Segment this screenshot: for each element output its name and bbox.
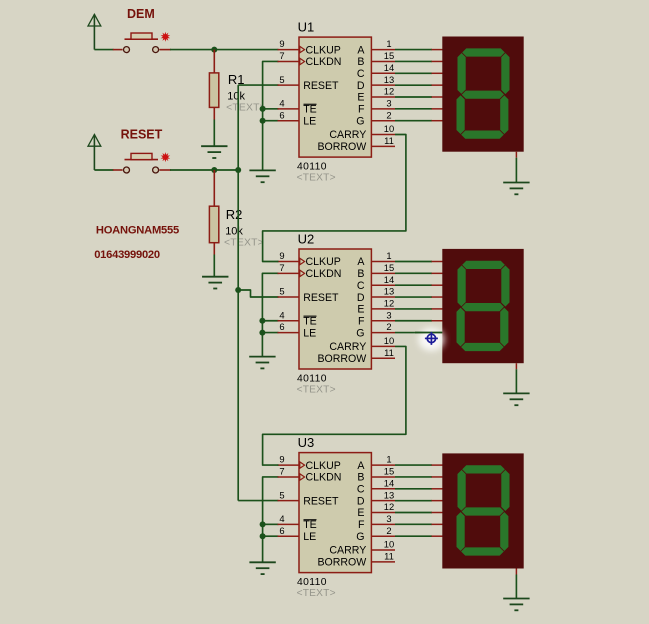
- wire U2 pin E to display: [395, 308, 432, 310]
- wire U3 LE to ground net: [263, 535, 279, 537]
- U2 pin 12 E stub: [371, 308, 395, 310]
- U2 pin 10 CARRY stub: [371, 345, 395, 347]
- svg-text:6: 6: [279, 109, 284, 120]
- U2 pin 2 G stub: [371, 332, 395, 334]
- U1 pin 13 D stub: [371, 84, 395, 86]
- display pin F stub (U3 stage): [432, 523, 444, 525]
- wire U3 pin A to display: [395, 464, 432, 466]
- wire RESET button to node R2: [170, 169, 239, 171]
- svg-text:TE: TE: [303, 315, 317, 327]
- wire reset net to U3 RESET: [238, 500, 278, 502]
- display pin A stub (U3 stage): [432, 464, 444, 466]
- U2 pin 3 F stub: [371, 320, 395, 322]
- svg-text:U3: U3: [298, 435, 315, 450]
- wire U1 LE to ground net: [263, 120, 279, 122]
- svg-text:D: D: [357, 495, 365, 507]
- U3 pin 1 A stub: [371, 464, 395, 466]
- svg-text:BORROW: BORROW: [317, 353, 366, 365]
- wire U3 pin D to display: [395, 500, 432, 502]
- wire U1 CARRY to U2 CLKUP: [263, 135, 406, 262]
- svg-text:A: A: [357, 460, 365, 472]
- U3 pin 10 CARRY stub: [371, 549, 395, 551]
- DISP3 segment f (top-left): [457, 469, 466, 511]
- svg-text:F: F: [358, 104, 365, 116]
- 7-segment display DISP3 body: [442, 453, 523, 568]
- U2 clock arrow CLKDN: [300, 270, 305, 277]
- svg-text:15: 15: [384, 262, 394, 273]
- wire U2 pin A to display: [395, 261, 432, 263]
- junction RESET net node: [235, 167, 241, 173]
- IC U3 40110 body: [299, 453, 371, 573]
- U1 pin 11 BORROW stub: [371, 145, 395, 147]
- svg-text:11: 11: [384, 551, 394, 562]
- svg-text:RESET: RESET: [303, 80, 339, 92]
- DISP2 segment g (middle): [461, 303, 505, 312]
- wire U3 pin E to display: [395, 512, 432, 514]
- wire DEM button to node R1: [170, 49, 215, 51]
- svg-text:2: 2: [386, 525, 391, 536]
- display pin D stub (U2 stage): [432, 296, 444, 298]
- wire U2 pin F to display: [395, 320, 432, 322]
- DISP1 segment b (top-right): [501, 53, 510, 95]
- push button RESET: [113, 152, 171, 173]
- DISP2 segment c (bottom-right): [500, 307, 509, 347]
- U3 pin 2 G stub: [371, 535, 395, 537]
- svg-text:13: 13: [384, 489, 394, 500]
- svg-text:CLKUP: CLKUP: [306, 44, 341, 56]
- ground R2: [202, 277, 228, 289]
- svg-text:5: 5: [279, 489, 284, 500]
- svg-text:C: C: [357, 68, 365, 80]
- DISP1 segment f (top-left): [457, 53, 466, 95]
- svg-text:1: 1: [386, 454, 391, 465]
- ground DISP3: [503, 599, 529, 611]
- display pin C stub (U2 stage): [432, 284, 444, 286]
- svg-text:15: 15: [384, 50, 394, 61]
- U2 pin 14 C stub: [371, 284, 395, 286]
- svg-text:RESET: RESET: [303, 292, 339, 304]
- U2 TE overline: [304, 315, 317, 317]
- wire reset net branch to U2 RESET (jog): [238, 290, 278, 297]
- U1 pin 14 C stub: [371, 72, 395, 74]
- svg-text:2: 2: [386, 109, 391, 120]
- svg-text:TE: TE: [303, 104, 317, 116]
- svg-text:CLKDN: CLKDN: [306, 472, 342, 484]
- svg-text:G: G: [356, 327, 364, 339]
- svg-text:4: 4: [279, 309, 284, 320]
- display pin E stub (U1 stage): [432, 96, 444, 98]
- wire DEM terminal to button: [94, 49, 113, 51]
- DISP2 segment e (bottom-left): [456, 307, 465, 347]
- svg-text:4: 4: [279, 97, 284, 108]
- svg-text:CARRY: CARRY: [329, 341, 366, 353]
- DISP3 segment c (bottom-right): [500, 512, 509, 552]
- svg-text:<TEXT>: <TEXT>: [224, 238, 264, 249]
- U2 pin 5 RESET stub: [278, 296, 300, 298]
- wire R2 to ground: [213, 255, 215, 277]
- U1 pin 4 TE stub: [278, 108, 300, 110]
- svg-text:7: 7: [279, 466, 284, 477]
- svg-text:14: 14: [384, 274, 394, 285]
- DISP3 segment d (bottom): [461, 547, 505, 556]
- U1 pin 9 CLKUP stub: [278, 49, 300, 51]
- wire U1 pin C to display: [395, 72, 432, 74]
- wire U2 pin B to display: [395, 272, 432, 274]
- wire U1 pin B to display: [395, 60, 432, 62]
- junction U1 LE node: [260, 118, 266, 124]
- svg-text:B: B: [357, 472, 364, 484]
- input terminal RESET: [88, 135, 101, 171]
- U2 pin 4 TE stub: [278, 320, 300, 322]
- ground U3 TE/LE: [249, 562, 275, 574]
- svg-text:CLKDN: CLKDN: [306, 56, 342, 68]
- svg-text:HOANGNAM555: HOANGNAM555: [96, 225, 179, 237]
- display pin B stub (U1 stage): [432, 60, 444, 62]
- svg-text:9: 9: [279, 250, 284, 261]
- U3 pin 3 F stub: [371, 523, 395, 525]
- display pin A stub (U1 stage): [432, 49, 444, 51]
- wire U2 LE to ground net: [262, 332, 278, 334]
- U3 pin 12 E stub: [371, 512, 395, 514]
- svg-text:01643999020: 01643999020: [94, 249, 160, 261]
- svg-text:1: 1: [386, 250, 391, 261]
- U3 pin 6 LE stub: [278, 535, 300, 537]
- junction R2 top node: [211, 167, 217, 173]
- svg-text:G: G: [356, 115, 364, 127]
- svg-text:3: 3: [386, 309, 391, 320]
- wire U2 pin G to display: [395, 332, 432, 334]
- svg-text:LE: LE: [303, 115, 316, 127]
- svg-text:E: E: [357, 304, 364, 316]
- svg-text:R2: R2: [226, 207, 243, 222]
- display pin A stub (U2 stage): [432, 261, 444, 263]
- U3 pin 4 TE stub: [278, 523, 300, 525]
- resistor R2 10k: [209, 206, 218, 243]
- wire U2 CARRY to U3 CLKUP: [263, 346, 406, 465]
- U3 pin 15 B stub: [371, 476, 395, 478]
- U2 pin 9 CLKUP stub: [278, 261, 300, 263]
- DISP2 segment d (bottom): [461, 343, 505, 352]
- svg-text:A: A: [357, 256, 365, 268]
- svg-text:E: E: [357, 507, 364, 519]
- svg-text:CARRY: CARRY: [329, 545, 366, 557]
- display pin C stub (U3 stage): [432, 488, 444, 490]
- DISP2 segment b (top-right): [501, 265, 510, 307]
- junction U3 TE node: [260, 521, 266, 527]
- wire U1 pin A to display: [395, 49, 432, 51]
- wire U3 CLKDN to ground net: [263, 477, 279, 562]
- svg-text:LE: LE: [303, 531, 316, 543]
- svg-text:CLKUP: CLKUP: [306, 460, 341, 472]
- U1 pin 3 F stub: [371, 108, 395, 110]
- U2 pin 11 BORROW stub: [371, 357, 395, 359]
- U3 pin 11 BORROW stub: [371, 561, 395, 563]
- wire DISP1 to ground: [515, 158, 517, 183]
- wire U2 TE to ground net: [262, 320, 278, 322]
- svg-text:F: F: [358, 519, 365, 531]
- U2 pin 6 LE stub: [278, 332, 300, 334]
- svg-text:U1: U1: [298, 20, 315, 35]
- display pin B stub (U2 stage): [432, 272, 444, 274]
- DISP1 segment d (bottom): [461, 130, 505, 139]
- svg-text:2: 2: [386, 321, 391, 332]
- svg-text:12: 12: [384, 298, 394, 309]
- svg-text:10: 10: [384, 335, 394, 346]
- svg-text:40110: 40110: [297, 577, 327, 588]
- wire U2 pin C to display: [395, 284, 432, 286]
- wire U1 pin E to display: [395, 96, 432, 98]
- svg-text:1: 1: [386, 38, 391, 49]
- display pin F stub (U2 stage): [432, 320, 444, 322]
- U1 clock arrow CLKDN: [300, 58, 305, 64]
- svg-text:40110: 40110: [297, 373, 327, 384]
- U1 pin 2 G stub: [371, 120, 395, 122]
- svg-text:6: 6: [279, 321, 284, 332]
- svg-text:11: 11: [384, 135, 394, 146]
- svg-text:C: C: [357, 484, 365, 496]
- wire U3 TE to ground net: [263, 523, 279, 525]
- display pin E stub (U2 stage): [432, 308, 444, 310]
- wire U1 CLKDN to ground net: [263, 61, 279, 170]
- DISP2 segment a (top): [462, 260, 506, 269]
- svg-text:G: G: [356, 531, 364, 543]
- svg-text:CLKDN: CLKDN: [306, 268, 342, 280]
- svg-text:15: 15: [384, 466, 394, 477]
- svg-text:10k: 10k: [227, 91, 245, 103]
- resistor R1 10k: [209, 73, 218, 108]
- display pin G stub (U1 stage): [432, 120, 444, 122]
- svg-text:40110: 40110: [297, 161, 327, 172]
- wire U3 pin G to display: [395, 535, 432, 537]
- display pin C stub (U1 stage): [432, 72, 444, 74]
- svg-text:BORROW: BORROW: [317, 141, 366, 153]
- svg-text:12: 12: [384, 501, 394, 512]
- DISP2 segment f (top-left): [457, 265, 466, 307]
- svg-text:7: 7: [279, 50, 284, 61]
- svg-text:10k: 10k: [225, 226, 243, 238]
- U3 pin 7 CLKDN stub: [278, 476, 300, 478]
- svg-text:4: 4: [279, 513, 284, 524]
- U2 pin 13 D stub: [371, 296, 395, 298]
- DISP3 segment b (top-right): [501, 469, 510, 511]
- wire U1 RESET pin to reset net: [238, 84, 278, 86]
- display pin stub DISP1 common: [515, 152, 517, 158]
- U2 pin 1 A stub: [371, 261, 395, 263]
- junction reset net at U2 branch: [235, 287, 241, 293]
- editor crosshair cursor: [415, 328, 444, 351]
- svg-text:5: 5: [279, 286, 284, 297]
- wire U1 pin D to display: [395, 84, 432, 86]
- U3 pin 14 C stub: [371, 488, 395, 490]
- U3 pin 13 D stub: [371, 500, 395, 502]
- U3 clock arrow CLKDN: [300, 474, 305, 480]
- U1 TE overline: [304, 103, 317, 105]
- U1 pin 12 E stub: [371, 96, 395, 98]
- svg-text:13: 13: [384, 74, 394, 85]
- U2 pin 7 CLKDN stub: [278, 272, 300, 274]
- U3 TE overline: [304, 519, 317, 521]
- ground U2 TE/LE: [249, 357, 275, 369]
- U1 pin 7 CLKDN stub: [278, 60, 300, 62]
- DISP1 segment g (middle): [461, 90, 505, 99]
- svg-text:B: B: [357, 56, 364, 68]
- svg-text:9: 9: [279, 454, 284, 465]
- wire RESET terminal to button: [94, 169, 113, 171]
- wire DISP3 to ground: [515, 575, 517, 599]
- svg-text:6: 6: [279, 525, 284, 536]
- svg-text:RESET: RESET: [121, 128, 163, 142]
- junction U2 LE node: [259, 330, 265, 336]
- wire DISP2 to ground: [515, 369, 517, 393]
- junction U1 TE node: [260, 106, 266, 112]
- wire U1 TE to ground net: [263, 108, 279, 110]
- U1 pin 6 LE stub: [278, 120, 300, 122]
- U3 pin 9 CLKUP stub: [278, 464, 300, 466]
- DISP3 segment g (middle): [461, 507, 505, 516]
- display pin G stub (U2 stage): [432, 332, 444, 334]
- svg-text:10: 10: [384, 123, 394, 134]
- DISP1 segment e (bottom-left): [456, 95, 465, 135]
- svg-text:LE: LE: [303, 327, 316, 339]
- display pin D stub (U1 stage): [432, 84, 444, 86]
- svg-text:RESET: RESET: [303, 495, 339, 507]
- svg-text:5: 5: [279, 74, 284, 85]
- ground U1 TE/LE: [249, 170, 275, 182]
- svg-text:F: F: [358, 315, 365, 327]
- U1 pin 1 A stub: [371, 49, 395, 51]
- U3 pin 5 RESET stub: [278, 500, 300, 502]
- DISP3 segment e (bottom-left): [456, 512, 465, 552]
- svg-text:7: 7: [279, 262, 284, 273]
- svg-text:U2: U2: [298, 232, 315, 247]
- resistor R2 bottom lead: [213, 243, 215, 255]
- U3 clock arrow CLKUP: [300, 462, 305, 468]
- wire U3 pin C to display: [395, 488, 432, 490]
- U1 pin 15 B stub: [371, 60, 395, 62]
- input terminal DEM: [88, 14, 101, 49]
- svg-text:BORROW: BORROW: [317, 557, 366, 569]
- DISP1 segment a (top): [462, 48, 506, 57]
- U2 pin 15 B stub: [371, 272, 395, 274]
- DISP1 segment c (bottom-right): [500, 95, 509, 135]
- 7-segment display DISP1 body: [442, 37, 523, 152]
- svg-text:3: 3: [386, 97, 391, 108]
- wire U2 CLKDN to ground net: [262, 273, 278, 356]
- svg-text:<TEXT>: <TEXT>: [297, 173, 336, 184]
- U1 clock arrow CLKUP: [300, 46, 305, 52]
- wire U3 pin F to display: [395, 523, 432, 525]
- 7-segment display DISP2 body: [442, 249, 523, 363]
- display pin stub DISP3 common: [515, 569, 517, 575]
- svg-text:10: 10: [384, 539, 394, 550]
- wire U3 pin B to display: [395, 476, 432, 478]
- wire R1 to ground: [213, 120, 215, 147]
- junction DEM/R1 node: [211, 47, 217, 53]
- ground DISP2: [503, 393, 529, 405]
- wire U1 pin G to display: [395, 120, 432, 122]
- U2 clock arrow CLKUP: [300, 258, 305, 264]
- display pin D stub (U3 stage): [432, 500, 444, 502]
- svg-text:<TEXT>: <TEXT>: [297, 384, 336, 395]
- display pin stub DISP2 common: [515, 363, 517, 369]
- svg-text:CARRY: CARRY: [329, 129, 366, 141]
- IC U1 40110 body: [299, 37, 371, 157]
- junction U3 LE node: [260, 533, 266, 539]
- IC U2 40110 body: [299, 249, 371, 369]
- svg-text:D: D: [357, 292, 365, 304]
- ground DISP1: [503, 183, 529, 195]
- svg-text:C: C: [357, 280, 365, 292]
- svg-text:11: 11: [384, 347, 394, 358]
- push button DEM: [113, 32, 171, 53]
- svg-text:13: 13: [384, 286, 394, 297]
- wire U2 pin D to display: [395, 296, 432, 298]
- resistor R1 top lead: [213, 50, 215, 74]
- svg-text:B: B: [357, 268, 364, 280]
- svg-text:14: 14: [384, 62, 394, 73]
- display pin F stub (U1 stage): [432, 108, 444, 110]
- svg-text:3: 3: [386, 513, 391, 524]
- svg-text:A: A: [357, 44, 365, 56]
- svg-text:TE: TE: [303, 519, 317, 531]
- svg-text:E: E: [357, 92, 364, 104]
- U1 pin 10 CARRY stub: [371, 134, 395, 136]
- U1 pin 5 RESET stub: [278, 84, 300, 86]
- svg-text:9: 9: [279, 38, 284, 49]
- ground R1: [201, 146, 227, 158]
- DISP3 segment a (top): [462, 465, 506, 474]
- svg-text:12: 12: [384, 86, 394, 97]
- svg-text:DEM: DEM: [127, 7, 155, 21]
- svg-text:CLKUP: CLKUP: [306, 256, 341, 268]
- junction U2 TE node: [259, 318, 265, 324]
- display pin B stub (U3 stage): [432, 476, 444, 478]
- wire node R1 to U1 CLKUP: [214, 49, 279, 51]
- resistor R1 bottom lead: [213, 107, 215, 119]
- svg-text:D: D: [357, 80, 365, 92]
- wire U1 pin F to display: [395, 108, 432, 110]
- display pin G stub (U3 stage): [432, 535, 444, 537]
- svg-text:<TEXT>: <TEXT>: [297, 588, 336, 599]
- display pin E stub (U3 stage): [432, 512, 444, 514]
- svg-text:14: 14: [384, 477, 394, 488]
- wire RESET net vertical U1.RESET to U3.RESET: [237, 85, 239, 501]
- resistor R2 top lead: [213, 170, 215, 207]
